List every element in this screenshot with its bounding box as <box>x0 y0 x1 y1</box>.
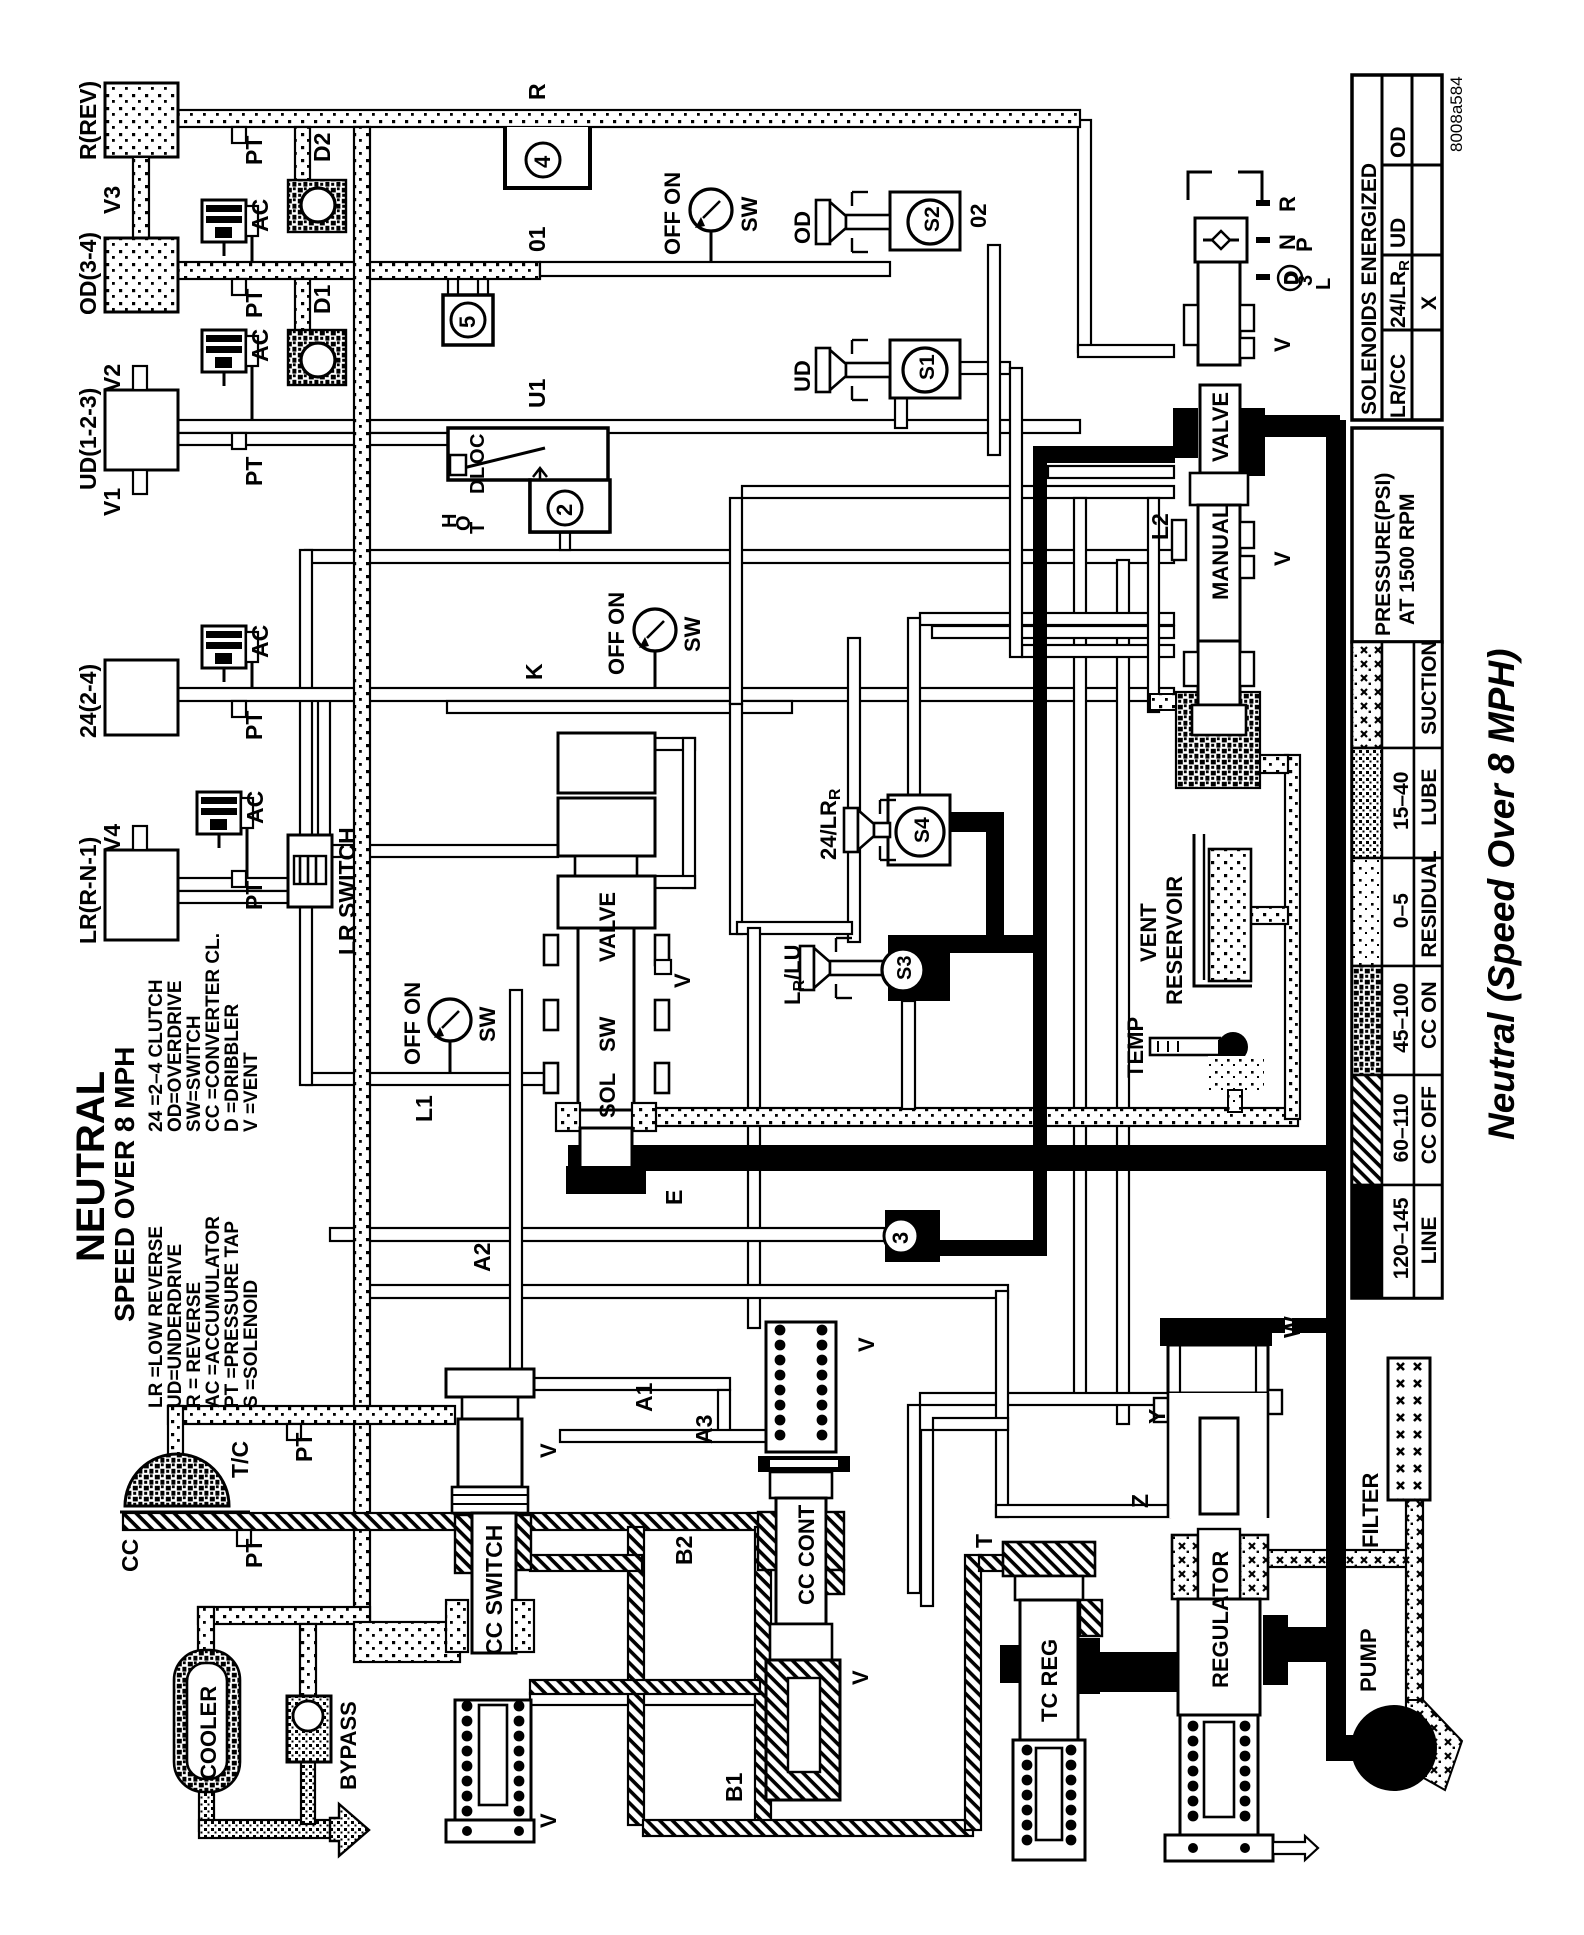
svg-text:24(2-4): 24(2-4) <box>75 664 101 738</box>
pipe T/C supply channel <box>168 1406 455 1424</box>
switch SW1 (R line) <box>690 189 732 231</box>
wire Y line to regulator <box>920 1393 1170 1405</box>
svg-text:LR/LU: LR/LU <box>780 945 808 1005</box>
valve train stipple pockets <box>556 1103 580 1131</box>
pipe manual valve bottom stipple block <box>1176 692 1260 788</box>
svg-text:L2: L2 <box>1147 513 1173 540</box>
svg-text:AC: AC <box>247 199 273 232</box>
svg-text:P: P <box>1292 237 1317 252</box>
svg-text:A2: A2 <box>469 1243 495 1272</box>
pipe CC hatch riser to T <box>965 1555 981 1830</box>
TC REG spring section <box>1013 1740 1085 1860</box>
svg-text:R = REVERSE: R = REVERSE <box>184 1282 205 1408</box>
pipe cooler out bottom run <box>199 1820 339 1838</box>
CC switch top flange <box>446 1369 534 1397</box>
TC REG black side fills <box>1000 1645 1020 1683</box>
svg-text:SW: SW <box>680 616 705 652</box>
svg-text:PT: PT <box>241 136 267 165</box>
wire LR lower line <box>178 891 288 903</box>
svg-text:5: 5 <box>455 316 480 328</box>
pipe CC hatched main line <box>123 1513 771 1530</box>
pressure tap PT on CC line <box>237 1530 251 1546</box>
svg-text:D =DRIBBLER: D =DRIBBLER <box>222 1003 243 1132</box>
svg-text:O: O <box>467 448 489 464</box>
wire L1 left riser <box>300 905 312 1085</box>
TC REG hatched cap <box>1003 1542 1095 1576</box>
svg-text:OD=OVERDRIVE: OD=OVERDRIVE <box>165 980 186 1132</box>
svg-text:V: V <box>848 1670 873 1685</box>
wire P2 vertical drop <box>1117 560 1129 1424</box>
wire drop x996 to Z <box>996 1291 1008 1517</box>
svg-text:24 =2–4 CLUTCH: 24 =2–4 CLUTCH <box>146 979 167 1132</box>
node ball 3 black box <box>885 1210 940 1262</box>
svg-text:V: V <box>670 973 695 988</box>
svg-text:V: V <box>1270 551 1295 566</box>
pipe black regulator to main line <box>1288 1627 1328 1662</box>
vent reservoir walls <box>1194 834 1252 986</box>
svg-text:3: 3 <box>888 1232 913 1244</box>
pressure tap PT on R line <box>232 127 246 143</box>
svg-text:L1: L1 <box>411 1095 437 1122</box>
svg-text:OFF ON: OFF ON <box>400 982 425 1065</box>
svg-text:60–110: 60–110 <box>1390 1093 1413 1162</box>
svg-text:UD(1-2-3): UD(1-2-3) <box>75 388 101 490</box>
pressure row CC ON <box>1352 966 1382 1075</box>
vent stub V on valve train <box>655 960 671 974</box>
regulator body lower <box>1178 1599 1260 1715</box>
regulator body upper <box>1168 1345 1268 1393</box>
filter box <box>1388 1358 1430 1500</box>
svg-text:Y: Y <box>1144 1409 1170 1424</box>
wire line under K <box>447 701 792 713</box>
regulator top black <box>1160 1332 1272 1346</box>
regulator upper tabs <box>1154 1398 1168 1422</box>
LR switch body <box>288 835 332 907</box>
solenoid S1 box <box>890 340 960 398</box>
wire manual valve port line y629 <box>932 626 1174 638</box>
svg-text:K: K <box>521 663 547 680</box>
svg-text:SPEED OVER 8 MPH: SPEED OVER 8 MPH <box>109 1047 140 1322</box>
dribbler D2 pocket <box>288 180 346 232</box>
svg-text:VENT: VENT <box>1136 903 1161 962</box>
svg-text:V2: V2 <box>99 364 125 392</box>
pressure row LINE <box>1352 1185 1382 1298</box>
svg-text:02: 02 <box>966 204 991 228</box>
svg-text:RESIDUAL: RESIDUAL <box>1418 850 1441 958</box>
svg-text:CC: CC <box>117 1539 143 1572</box>
wire A1 elbow down <box>718 1390 730 1436</box>
pipe cooler feed drop <box>198 1607 214 1655</box>
accumulator AC (UD) <box>202 330 246 372</box>
svg-text:PT: PT <box>291 1433 317 1462</box>
check ball 4 <box>526 143 560 177</box>
wire drop to CC CONT x748 <box>748 928 760 1328</box>
svg-text:2: 2 <box>552 504 577 516</box>
svg-text:FILTER: FILTER <box>1358 1473 1383 1548</box>
manual valve lever box <box>1195 218 1247 262</box>
pressure tap PT on U1 line <box>232 433 246 449</box>
wire L1 line <box>306 1073 558 1085</box>
CC switch stipple pockets <box>446 1600 468 1652</box>
svg-text:MANUAL: MANUAL <box>1208 505 1233 600</box>
svg-text:CC SWITCH: CC SWITCH <box>481 1525 507 1655</box>
switch SW2 (K line) <box>634 609 676 651</box>
solenoid S3 <box>882 949 924 991</box>
vent V1 stub <box>133 470 147 494</box>
svg-text:PT: PT <box>241 881 267 910</box>
svg-text:LR SWITCH: LR SWITCH <box>334 827 360 955</box>
wire manual valve port line y616 <box>920 613 1174 625</box>
pipe bypass feed drop <box>300 1624 316 1700</box>
CC switch upper spool <box>458 1419 522 1487</box>
dribbler D2 channel <box>295 127 310 187</box>
svg-text:B2: B2 <box>671 1536 697 1565</box>
svg-text:SUCTION: SUCTION <box>1418 640 1441 735</box>
svg-text:S =SOLENOID: S =SOLENOID <box>241 1280 262 1408</box>
pipe K port stipple pocket <box>1150 694 1176 710</box>
svg-text:LINE: LINE <box>1418 1216 1441 1264</box>
table SOLENOIDS ENERGIZED <box>1352 75 1442 420</box>
manual valve bottom cap <box>1192 705 1246 735</box>
CC switch bottom flange <box>446 1820 534 1842</box>
svg-text:V3: V3 <box>99 186 125 214</box>
svg-text:UD: UD <box>790 360 815 392</box>
CC switch collar <box>452 1487 528 1513</box>
manual valve side tabs mid <box>1172 520 1186 560</box>
vent V4 stub <box>133 826 147 850</box>
pipe black ball3 horizontal <box>938 1240 1047 1256</box>
pipe main line black vertical <box>1326 420 1346 1742</box>
wire Y riser from CC CONT port <box>908 1405 920 1593</box>
wire SOL feedback drop <box>683 738 695 888</box>
svg-text:PRESSURE(PSI): PRESSURE(PSI) <box>1372 473 1395 636</box>
thermal valve lever <box>455 448 545 470</box>
svg-text:AT 1500 RPM: AT 1500 RPM <box>1396 494 1419 626</box>
pipe CC hatch vertical x755 <box>755 1527 771 1827</box>
CC switch body <box>472 1513 516 1653</box>
svg-text:U1: U1 <box>524 378 550 408</box>
regulator vent V arrow <box>1273 1836 1318 1860</box>
svg-text:D2: D2 <box>309 133 335 162</box>
svg-text:CC ON: CC ON <box>1418 981 1441 1049</box>
svg-text:UD=UNDERDRIVE: UD=UNDERDRIVE <box>165 1244 186 1408</box>
wire SOL valve upper feedback loop <box>655 738 695 750</box>
svg-text:CC =CONVERTER CL.: CC =CONVERTER CL. <box>203 933 224 1132</box>
CC CONT spring section <box>766 1322 836 1452</box>
svg-text:D: D <box>467 480 489 494</box>
solenoid S4 <box>896 808 944 856</box>
svg-text:SOLENOIDS ENERGIZED: SOLENOIDS ENERGIZED <box>1358 163 1381 415</box>
valve train lower stem <box>580 1128 632 1168</box>
solenoid S2 plunger <box>816 200 830 244</box>
manual valve collar <box>1190 473 1248 505</box>
wire SOL feedback lower <box>655 876 695 888</box>
wire S4 feed elbow <box>908 618 920 798</box>
svg-text:R: R <box>524 83 550 100</box>
LR switch element <box>294 856 326 884</box>
temp thermometer stem <box>1150 1038 1220 1055</box>
pipe R(REV) stippled supply line <box>178 110 1080 127</box>
svg-text:PT: PT <box>241 711 267 740</box>
pressure row SUCTION <box>1352 642 1382 748</box>
svg-text:V: V <box>854 1337 879 1352</box>
svg-text:Z: Z <box>1127 1494 1153 1508</box>
svg-text:AC =ACCUMULATOR: AC =ACCUMULATOR <box>203 1216 224 1408</box>
pipe black regulator right leg <box>1263 1615 1288 1685</box>
wire short pair x1150 <box>1148 498 1159 712</box>
CC CONT hatched tabs <box>758 1512 776 1570</box>
pipe suction channel regulator to filter <box>1268 1550 1420 1567</box>
wire S3 feed drop <box>848 638 860 942</box>
svg-text:COOLER: COOLER <box>196 1686 221 1780</box>
torque converter T/C dome <box>125 1454 229 1506</box>
svg-text:L: L <box>1313 278 1335 290</box>
manual valve VALVE white center <box>1200 385 1240 473</box>
pipe long vertical stippled channel <box>354 127 370 1622</box>
svg-text:V: V <box>536 1443 561 1458</box>
svg-text:PT: PT <box>241 289 267 318</box>
wire UD lower line <box>178 433 448 445</box>
wire L2 elbow down to LR switch <box>300 550 312 842</box>
svg-text:PT: PT <box>241 457 267 486</box>
CC switch spring section <box>455 1700 531 1825</box>
pipe black S3 band <box>888 935 1046 953</box>
svg-text:T: T <box>467 522 489 534</box>
svg-text:VALVE: VALVE <box>595 892 620 962</box>
wire R line drop elbow into manual valve <box>1078 345 1174 357</box>
svg-text:V: V <box>536 1813 561 1828</box>
regulator center spool <box>1200 1418 1238 1514</box>
check ball 5 <box>451 303 485 337</box>
svg-text:PT: PT <box>241 1539 267 1568</box>
svg-text:RESERVOIR: RESERVOIR <box>1162 876 1187 1005</box>
pipe reservoir outlet <box>1250 907 1288 924</box>
svg-text:SW=SWITCH: SW=SWITCH <box>184 1015 205 1132</box>
wire S1 output to drop <box>955 362 1010 374</box>
svg-text:V: V <box>1270 337 1295 352</box>
bypass valve box <box>287 1696 331 1762</box>
wire drop from S1 line to y649 elbow <box>1010 368 1022 657</box>
regulator spring spool <box>1204 1722 1234 1817</box>
regulator center section <box>1168 1393 1268 1518</box>
wire upper manifold line to manual valve <box>742 486 1174 498</box>
wire white pair under black manifold <box>1048 466 1174 478</box>
svg-text:Neutral (Speed Over 8 MPH): Neutral (Speed Over 8 MPH) <box>1481 649 1522 1140</box>
pipe black pump suction elbow <box>1326 1735 1366 1761</box>
svg-text:S4: S4 <box>911 817 934 843</box>
svg-text:OD: OD <box>790 211 815 244</box>
TC REG body <box>1020 1600 1078 1740</box>
svg-text:UD: UD <box>1387 218 1410 248</box>
svg-text:R: R <box>1275 196 1300 212</box>
svg-text:T/C: T/C <box>227 1441 253 1478</box>
svg-text:V1: V1 <box>99 488 125 516</box>
CC switch hatched tabs <box>455 1515 472 1573</box>
thermal valve COLD/HOT body <box>448 428 608 532</box>
svg-text:8008a584: 8008a584 <box>1447 76 1466 152</box>
svg-text:S1: S1 <box>916 354 939 380</box>
wire line y928 to right <box>737 922 852 934</box>
valve train SOL SW VALVE body <box>558 733 655 793</box>
svg-text:S2: S2 <box>921 206 944 232</box>
pipe black S4 down leg <box>986 812 1004 942</box>
wire S3 output down <box>902 1001 915 1109</box>
manual valve gate brackets <box>1188 172 1212 200</box>
clutch UD(1-2-3) box <box>105 390 178 470</box>
thermal valve arrow <box>533 468 547 500</box>
temp stipple spray <box>1208 1056 1264 1094</box>
svg-text:AC: AC <box>242 791 268 824</box>
svg-text:TC REG: TC REG <box>1037 1639 1062 1722</box>
clutch OD(3-4) box <box>105 238 178 312</box>
regulator xpat collar <box>1172 1535 1198 1599</box>
wire R line drop to manual valve <box>1078 120 1091 352</box>
check ball 4 box <box>505 127 590 188</box>
pressure row RESIDUAL <box>1352 858 1382 966</box>
svg-text:OD: OD <box>1387 127 1410 159</box>
svg-text:LR(R-N-1): LR(R-N-1) <box>75 837 101 944</box>
valve train side tabs <box>544 935 558 965</box>
svg-text:V4: V4 <box>99 824 125 852</box>
wire Z riser elbow <box>933 1418 1008 1430</box>
wire LR clutch line <box>178 878 288 891</box>
check ball 3 <box>884 1219 918 1253</box>
wire ball2 outlet stub <box>560 532 570 550</box>
pipe black TC REG to regulator <box>1095 1652 1180 1692</box>
svg-text:AC: AC <box>247 625 273 658</box>
cooler capsule outer <box>174 1650 240 1792</box>
manual valve VALVE section black sides <box>1173 408 1198 458</box>
regulator spring section <box>1180 1715 1258 1835</box>
svg-text:SW: SW <box>475 1006 500 1042</box>
pipe cooler out fine channel <box>199 1791 214 1831</box>
temp thermometer bulb <box>1218 1032 1248 1062</box>
svg-text:C: C <box>467 434 489 448</box>
CC switch neck <box>462 1397 518 1419</box>
svg-text:BYPASS: BYPASS <box>336 1701 361 1790</box>
wire U1 line (UD clutch feed) <box>178 420 1080 433</box>
pressure tap PT on T/C line <box>287 1424 301 1440</box>
svg-text:S3: S3 <box>894 956 916 980</box>
CC CONT body <box>776 1498 826 1624</box>
svg-text:LR/CC: LR/CC <box>1387 354 1410 418</box>
pipe T/C channel left elbow <box>168 1406 183 1458</box>
pipe CC hatch bottom run <box>643 1820 973 1836</box>
svg-text:OFF ON: OFF ON <box>604 592 629 675</box>
bypass ball <box>293 1701 323 1731</box>
svg-text:4: 4 <box>530 155 555 168</box>
wire OD line plain continuation <box>540 262 890 276</box>
svg-text:R(REV): R(REV) <box>75 81 101 160</box>
check ball 2 box <box>530 480 610 532</box>
solenoid S2 <box>908 200 952 244</box>
pipe black VALVE right port to main line <box>1240 415 1340 437</box>
wire ball5 inlet stub <box>448 276 458 298</box>
CC CONT sleeve with hatch <box>766 1660 840 1800</box>
solenoid S4 box <box>888 795 950 865</box>
svg-text:OD(3-4): OD(3-4) <box>75 232 101 315</box>
svg-text:L: L <box>467 467 489 479</box>
solenoid S2 box <box>890 192 960 250</box>
pipe black E band <box>568 1145 1330 1171</box>
manual valve MANUAL section <box>1198 505 1240 641</box>
pipe CC hatch to TC REG <box>979 1555 1007 1571</box>
solenoid S3 plunger <box>800 946 814 990</box>
check ball 5 box <box>443 295 493 345</box>
pipe black manifold start <box>1033 446 1175 463</box>
wire K / 24 clutch line <box>178 688 1174 701</box>
svg-text:120–145: 120–145 <box>1390 1197 1413 1279</box>
wire B2 plain line below hatch <box>530 1693 755 1705</box>
svg-text:45–100: 45–100 <box>1390 983 1413 1053</box>
wire manual valve port line y649 <box>1022 645 1174 657</box>
svg-text:SW: SW <box>737 196 762 232</box>
wire A1 vertical <box>510 990 522 1380</box>
check ball 2 <box>548 491 582 525</box>
svg-text:E: E <box>661 1190 687 1205</box>
svg-text:V =VENT: V =VENT <box>241 1052 262 1132</box>
pipe OD(3-4) stippled line <box>178 262 540 279</box>
pressure tap PT on LR line <box>232 871 246 887</box>
pipe suction around pump <box>1406 1700 1462 1790</box>
solenoid S3 black box <box>888 935 950 1001</box>
CC CONT lower collar <box>770 1624 832 1660</box>
svg-text:T: T <box>971 1534 997 1548</box>
svg-text:PUMP: PUMP <box>1356 1628 1381 1692</box>
svg-text:W: W <box>1279 1316 1305 1338</box>
pipe suction vertical at filter <box>1406 1495 1423 1705</box>
svg-text:VALVE: VALVE <box>1208 392 1233 462</box>
dribbler D1 pocket <box>288 330 346 385</box>
manual valve side tabs upper <box>1184 305 1198 345</box>
pipe B2 hatch lower branch <box>530 1680 760 1694</box>
solenoid S1 <box>903 348 947 392</box>
vent reservoir fluid <box>1209 849 1251 981</box>
dribbler D2 ball <box>301 188 335 222</box>
valve train black cap <box>566 1166 646 1194</box>
switch SW3 (L1 line) <box>429 999 471 1041</box>
pressure row CC OFF <box>1352 1075 1382 1185</box>
gear ticks <box>1256 200 1270 206</box>
svg-text:01: 01 <box>524 226 550 252</box>
svg-text:CC CONT: CC CONT <box>794 1504 819 1605</box>
TC REG spring spool <box>1036 1748 1062 1840</box>
solenoid S1 plunger <box>816 348 830 392</box>
wire ball5 outlet stub <box>478 276 488 298</box>
svg-text:B1: B1 <box>721 1772 747 1802</box>
svg-text:TEMP: TEMP <box>1123 1017 1148 1078</box>
svg-text:X: X <box>1418 296 1441 310</box>
pressure row LUBE <box>1352 748 1382 858</box>
pipe vent reservoir right channel <box>1285 755 1300 1119</box>
svg-text:LUBE: LUBE <box>1418 769 1441 826</box>
pipe vent reservoir bottom channel <box>650 1108 1298 1126</box>
cooler capsule inner <box>187 1663 227 1779</box>
solenoid S4 plunger <box>844 808 858 852</box>
manual valve lower spool <box>1198 641 1240 705</box>
svg-text:LR =LOW REVERSE: LR =LOW REVERSE <box>146 1226 167 1408</box>
wire valve right elbow down <box>730 704 742 934</box>
pipe CC hatch vertical B1 drop x636 <box>628 1527 644 1825</box>
wire A2 line <box>330 1228 887 1241</box>
clutch LR(R-N-1) box <box>105 850 178 940</box>
wire UD box to U1 riser <box>130 420 178 433</box>
dribbler D1 ball <box>301 343 335 377</box>
vent V2 stub <box>133 366 147 390</box>
CC CONT collar <box>770 1472 832 1498</box>
CC CONT black separator <box>758 1456 850 1472</box>
wire L2 line from manual valve to left elbow <box>305 550 1174 563</box>
